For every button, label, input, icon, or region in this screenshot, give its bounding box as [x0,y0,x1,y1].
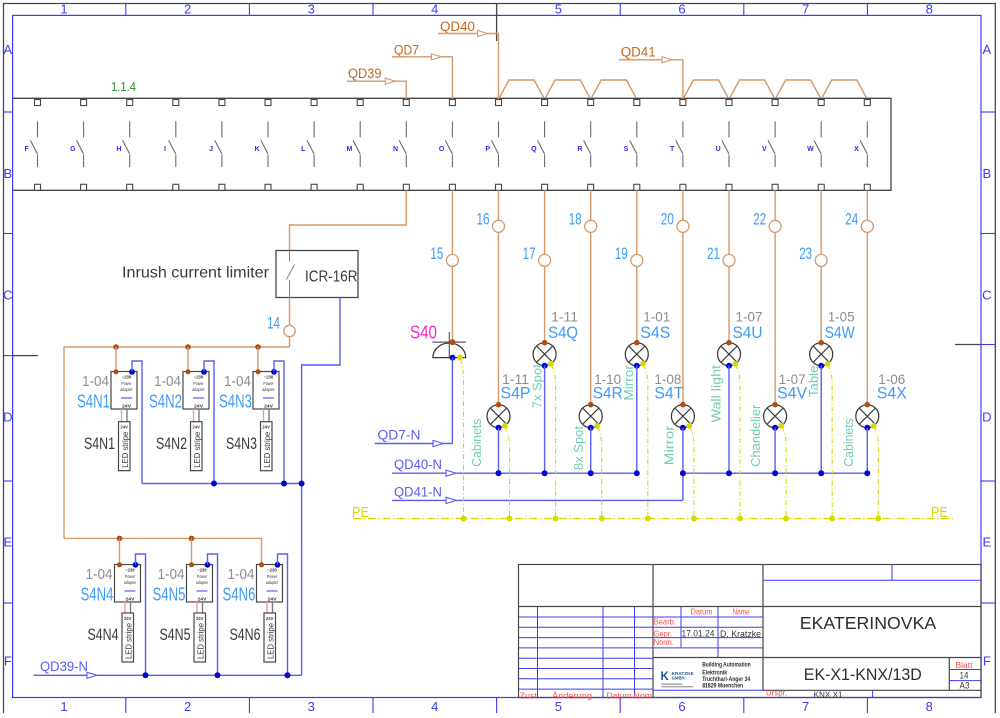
terminal X bottom [864,184,870,190]
terminal O bottom [449,184,455,190]
svg-text:F: F [25,146,30,153]
wire QD39-N [34,674,302,676]
svg-text:Inrush current limiter: Inrush current limiter [122,265,270,282]
power adapter S4N5 [187,562,213,603]
switch Q [531,121,545,167]
power adapter S4N4 [115,562,141,603]
svg-text:LED stripe: LED stripe [121,431,130,468]
terminal circle 22 [769,220,781,232]
wire PE drop S4W [828,365,832,519]
svg-text:1: 1 [60,2,67,17]
lamp S4U [718,340,741,369]
svg-text:17.01.24: 17.01.24 [682,629,715,640]
svg-text:24V: 24V [194,404,204,410]
wire L drop S4N1 [115,347,117,372]
terminal circle 21 [723,254,735,266]
svg-text:~230: ~230 [194,375,204,380]
lamp S4V [764,402,787,431]
svg-text:S4N6: S4N6 [230,625,261,644]
LED stripe S4N3 [261,422,273,471]
svg-text:Table: Table [807,366,821,398]
terminal U top [726,100,732,106]
wire QD7-N [375,443,453,445]
svg-text:4: 4 [431,699,438,713]
svg-text:Power: Power [197,574,208,579]
terminal S top [634,100,640,106]
svg-text:Power: Power [267,574,278,579]
svg-text:D. Kratzke: D. Kratzke [720,629,761,640]
wire T lamp neutral drop [682,428,684,474]
svg-text:EKATERINOVKA: EKATERINOVKA [800,613,937,633]
svg-text:~230: ~230 [122,375,132,380]
wire L drop S4N3 [257,347,259,372]
junction QD40-N / S [634,470,640,476]
svg-text:A3: A3 [960,681,970,691]
svg-text:4: 4 [431,2,438,17]
svg-text:24V: 24V [196,616,204,621]
svg-text:24V: 24V [264,404,274,410]
wire bridge W-X (QD41 chain) [822,80,866,98]
svg-text:A: A [982,42,991,57]
svg-text:3: 3 [308,2,315,17]
svg-text:5: 5 [555,699,562,713]
switch R [577,121,590,167]
svg-text:R: R [577,146,582,153]
svg-text:QD7: QD7 [394,43,419,58]
wire W lamp neutral drop [820,366,822,474]
terminal O top [449,100,455,106]
arrow QD7 [431,54,441,60]
svg-text:W: W [807,146,814,153]
terminal T top [680,100,686,106]
wire S4N1 -24V lead [126,409,128,422]
terminal circle 15 [446,254,458,266]
svg-text:24V: 24V [124,616,132,621]
wire X drop to S4X [866,190,868,404]
wire L drop S4N4 [119,538,121,564]
svg-text:24: 24 [845,210,858,229]
svg-text:F: F [4,654,12,669]
junction QD40-N / P [496,470,502,476]
terminal U bottom [726,184,732,190]
svg-text:K: K [255,146,260,153]
svg-text:S4W: S4W [825,323,855,342]
wire S40 neutral drop [451,358,453,444]
svg-text:Truchthari-Anger 34: Truchthari-Anger 34 [702,677,751,683]
wire S4N3 neutral loop [274,361,284,484]
label 1-11 S4P [501,372,531,402]
svg-text:Power: Power [125,574,136,579]
svg-text:S4N2: S4N2 [156,434,187,453]
svg-text:7: 7 [802,699,809,713]
wire terminal 14 to L bus [289,337,291,347]
terminal K bottom [265,184,271,190]
svg-text:QD40: QD40 [440,19,475,34]
svg-text:Datum: Datum [607,691,632,700]
svg-text:~230: ~230 [267,568,277,573]
svg-text:Bearb.: Bearb. [654,617,676,627]
svg-text:S4N5: S4N5 [153,584,186,604]
svg-text:QD41: QD41 [621,45,656,60]
svg-text:KNX X1: KNX X1 [814,690,843,700]
svg-text:S4N4: S4N4 [88,625,119,644]
switch K [255,121,268,167]
LED stripe S4N2 [191,422,203,471]
switch S [624,121,637,167]
svg-text:Q: Q [531,146,537,153]
svg-text:15: 15 [430,244,443,263]
wire L bus row 2 [64,538,262,564]
svg-text:EK-X1-KNX/13D: EK-X1-KNX/13D [804,665,922,684]
terminal I top [173,100,179,106]
terminal W top [818,100,824,106]
wire P lamp neutral drop [498,428,500,474]
label 1-11 S4Q [548,310,578,342]
svg-text:E: E [3,535,12,550]
svg-text:Zust.: Zust. [520,691,540,700]
junction QD41-N / V [772,470,778,476]
svg-text:S: S [624,146,629,153]
label 1-07 S4V [777,372,808,402]
terminal R top [588,100,594,106]
svg-text:T: T [670,146,675,153]
svg-text:1: 1 [60,699,67,713]
svg-text:B: B [3,166,12,181]
svg-text:17: 17 [523,244,536,263]
wire QD40 feed [438,34,499,100]
junction L bus / S4N3 [255,344,261,350]
svg-text:Blatt: Blatt [956,661,974,670]
switch V [762,121,775,167]
svg-text:1-04: 1-04 [154,374,181,390]
wire S4N6 -24V lead [272,602,274,613]
terminal L bottom [311,184,317,190]
wire S4N5 +24V lead [196,602,198,613]
wire bridge T-U (QD41 chain) [684,80,728,98]
wire PE drop S4S [644,365,648,519]
svg-text:S4X: S4X [877,384,907,403]
terminal G top [81,100,87,106]
svg-text:LED stripe: LED stripe [266,622,275,659]
junction QD39-N / S4N6 [285,672,291,678]
wire U lamp neutral drop [728,366,730,474]
wire S lamp neutral drop [636,366,638,474]
terminal W bottom [818,184,824,190]
svg-text:adapter: adapter [124,580,137,585]
svg-text:L: L [301,146,306,153]
svg-text:P: P [485,146,490,153]
svg-text:QD40-N: QD40-N [394,457,442,472]
svg-text:S4N2: S4N2 [149,391,182,411]
svg-text:C: C [982,288,991,303]
svg-text:S4N1: S4N1 [77,391,110,411]
wire X lamp neutral drop [866,428,868,474]
wire N terminal to ICR-16R [290,190,407,250]
svg-text:F: F [983,654,991,669]
svg-text:18: 18 [569,210,582,229]
svg-text:I: I [164,146,166,153]
wire QD41 feed [619,60,683,99]
terminal M top [357,100,363,106]
junction PE / S4T [691,516,697,522]
LED stripe S4N4 [122,613,134,662]
svg-text:LED stripe: LED stripe [193,431,202,468]
switch L [301,121,314,167]
svg-text:V: V [762,146,767,153]
svg-text:20: 20 [661,210,674,229]
svg-text:G: G [70,146,76,153]
wire S4N2 neutral loop [204,361,214,484]
wire S4N3 -24V lead [268,409,270,422]
terminal circle 17 [539,254,551,266]
wire PE drop S4X [874,427,878,519]
LED stripe S4N1 [119,422,131,471]
svg-text:7: 7 [802,2,809,17]
wire O drop to S40 [451,190,453,342]
power adapter S4N1 [111,369,137,410]
arrow QD39-N [87,672,97,678]
arrow QD41-N [446,497,456,503]
terminal Q bottom [542,184,548,190]
inrush current limiter ICR-16R [276,251,358,298]
svg-text:S4Q: S4Q [548,323,578,342]
switch H [116,121,129,167]
svg-text:7x Spot: 7x Spot [531,364,545,409]
wire S4N6 neutral loop [278,554,288,675]
terminal V bottom [772,184,778,190]
svg-text:S4N5: S4N5 [160,625,191,644]
wire Q lamp neutral drop [544,366,546,474]
wire ICR-16R neutral to N buses [302,298,340,676]
wire L drop S4N6 entry dot [259,562,264,567]
terminal J bottom [219,184,225,190]
svg-text:5: 5 [555,2,562,17]
svg-text:S4U: S4U [733,323,763,342]
label 1-08 S4T [654,372,683,402]
terminal circle 20 [677,220,689,232]
switch J [209,121,222,167]
svg-text:6: 6 [678,2,685,17]
svg-text:M: M [346,146,352,153]
svg-text:S4V: S4V [777,384,808,403]
wire S drop to S4S [636,190,638,342]
wire T drop to QD41-N [682,473,684,500]
wire R drop to S4R [590,190,592,404]
junction QD39-N / S4N5 [215,672,221,678]
wire bridge Q-R (QD40 chain) [546,80,590,98]
wire QD7 feed [392,57,452,99]
junction L bus row2 / S4N5 [189,536,195,542]
junction PE / S4P [507,516,513,522]
svg-text:Building Automation: Building Automation [702,662,751,668]
svg-text:2: 2 [184,2,191,17]
svg-text:8: 8 [926,699,933,713]
svg-text:Wall light: Wall light [709,364,723,422]
wire PE drop S4P [505,427,509,519]
wire L drop S4N2 [187,347,189,372]
wire QD39 feed [347,81,407,99]
junction QD41-N / T [680,470,686,476]
svg-text:S40: S40 [410,321,437,342]
terminal P bottom [496,184,502,190]
svg-text:81829 Muenchen: 81829 Muenchen [702,683,743,689]
svg-text:1-04: 1-04 [228,567,255,583]
svg-text:PE: PE [352,504,369,521]
junction L bus / S4N1 [113,344,119,350]
label 1-05 S4W [825,310,855,342]
terminal I bottom [173,184,179,190]
wire S4N5 -24V lead [202,602,204,613]
wire PE drop S4V [782,427,786,519]
svg-text:adapter: adapter [262,387,275,392]
svg-text:S4R: S4R [593,384,623,403]
svg-text:1-04: 1-04 [82,374,109,390]
svg-text:Urspr.: Urspr. [766,688,787,698]
wire V drop to S4V [774,190,776,404]
svg-text:A: A [3,42,12,57]
svg-text:14: 14 [267,314,280,333]
wire ICR-16R to terminal 14 [289,298,291,326]
lamp S4W [810,340,833,369]
junction PE / S4V [783,516,789,522]
power adapter S4N3 [253,369,279,410]
wire W drop to S4W [820,190,822,342]
svg-text:Mirror: Mirror [622,365,636,401]
wire bridge P-Q (QD40 chain) [500,80,544,98]
svg-text:S4N3: S4N3 [219,391,252,411]
wire S4N6 +24V lead [266,602,268,613]
svg-text:Name: Name [733,607,750,617]
terminal circle 14 [284,325,295,336]
terminal strip 1.1.4 outline [13,98,891,190]
wire PE drop S4Q [551,365,555,519]
svg-text:Nom.: Nom. [634,691,655,700]
junction L bus row2 / S4N4 [117,536,123,542]
wire QD41-N [392,499,683,501]
svg-text:S4N1: S4N1 [84,434,115,453]
wire P drop to S4P [498,190,500,404]
junction QD41-N / X [864,470,870,476]
junction QD39-N / S4N4 [143,672,149,678]
terminal circle 16 [493,220,505,232]
svg-text:adapter: adapter [266,580,279,585]
svg-text:1-04: 1-04 [224,374,251,390]
junction PE / S4W [829,516,835,522]
wire PE drop S4U [736,365,740,519]
svg-text:adapter: adapter [192,387,205,392]
svg-text:S4T: S4T [654,384,683,403]
svg-text:24V: 24V [122,404,132,410]
terminal H top [127,100,133,106]
label 1-07 S4U [733,310,763,342]
wire S4N4 neutral loop [136,554,146,675]
svg-text:Datum: Datum [691,607,713,617]
buzzer S40 [432,332,466,361]
wire S4N2 -24V lead [198,409,200,422]
wire bridge R-S (QD40 chain) [592,80,636,98]
wire S4N1 +24V lead [121,409,123,422]
svg-text:8: 8 [926,2,933,17]
svg-text:Power: Power [121,381,132,386]
terminal N top [403,100,409,106]
svg-text:QD7-N: QD7-N [378,428,421,443]
svg-text:6: 6 [678,699,685,713]
svg-text:Änderung: Änderung [552,691,592,700]
arrow QD40 [478,30,488,36]
terminal F bottom [35,184,41,190]
junction PE / S4R [599,516,605,522]
svg-text:1-04: 1-04 [158,567,185,583]
svg-text:16: 16 [477,210,490,229]
svg-text:Chandelier: Chandelier [749,405,763,467]
svg-text:8x Spot: 8x Spot [572,425,586,470]
svg-text:adapter: adapter [196,580,209,585]
svg-text:24V: 24V [266,616,274,621]
lamp S4X [856,402,879,431]
svg-text:Elektronik: Elektronik [702,671,728,677]
switch F [25,121,38,167]
wire PE drop S4R [598,427,602,519]
junction PE / S4S [645,516,651,522]
svg-text:24V: 24V [198,597,208,603]
svg-text:S4N6: S4N6 [223,584,256,604]
terminal X top [864,100,870,106]
junction QD40-N / R [588,470,594,476]
svg-text:14: 14 [960,670,969,680]
junction PE / S4Q [553,516,559,522]
svg-text:ICR-16R: ICR-16R [305,268,358,285]
terminal H bottom [127,184,133,190]
terminal circle 23 [815,254,827,266]
svg-text:19: 19 [615,244,628,263]
junction N bus row1 / ICR neutral [299,481,305,487]
arrow QD41 [662,57,672,63]
terminal R bottom [588,184,594,190]
wire T drop to S4T [682,190,684,404]
wire S4N1 neutral loop [132,361,142,484]
terminal J top [219,100,225,106]
switch U [716,121,729,167]
switch P [485,121,498,167]
svg-text:24V: 24V [262,425,270,430]
svg-text:U: U [716,146,721,153]
svg-text:S4N3: S4N3 [226,434,257,453]
svg-text:21: 21 [707,244,720,263]
lamp S4S [625,340,648,369]
svg-text:Power: Power [263,381,274,386]
svg-text:QD41-N: QD41-N [394,484,442,499]
Kratzke logo [653,662,763,690]
terminal F top [35,100,41,106]
wire U drop to S4U [728,190,730,342]
label 1-10 S4R [593,372,623,402]
switch T [670,121,683,167]
LED stripe S4N5 [194,613,206,662]
svg-text:~230: ~230 [125,568,135,573]
svg-text:D: D [982,410,991,425]
svg-text:N: N [393,146,398,153]
svg-text:J: J [209,146,213,153]
power adapter S4N2 [183,369,209,410]
wire S4N3 +24V lead [263,409,265,422]
wire QD40-N bus [392,472,637,474]
junction N bus row1 S4N2 [211,481,217,487]
terminal circle 19 [631,254,643,266]
switch X [854,121,867,167]
svg-text:3: 3 [308,699,315,713]
svg-text:24V: 24V [120,425,128,430]
wire R lamp neutral drop [590,428,592,474]
